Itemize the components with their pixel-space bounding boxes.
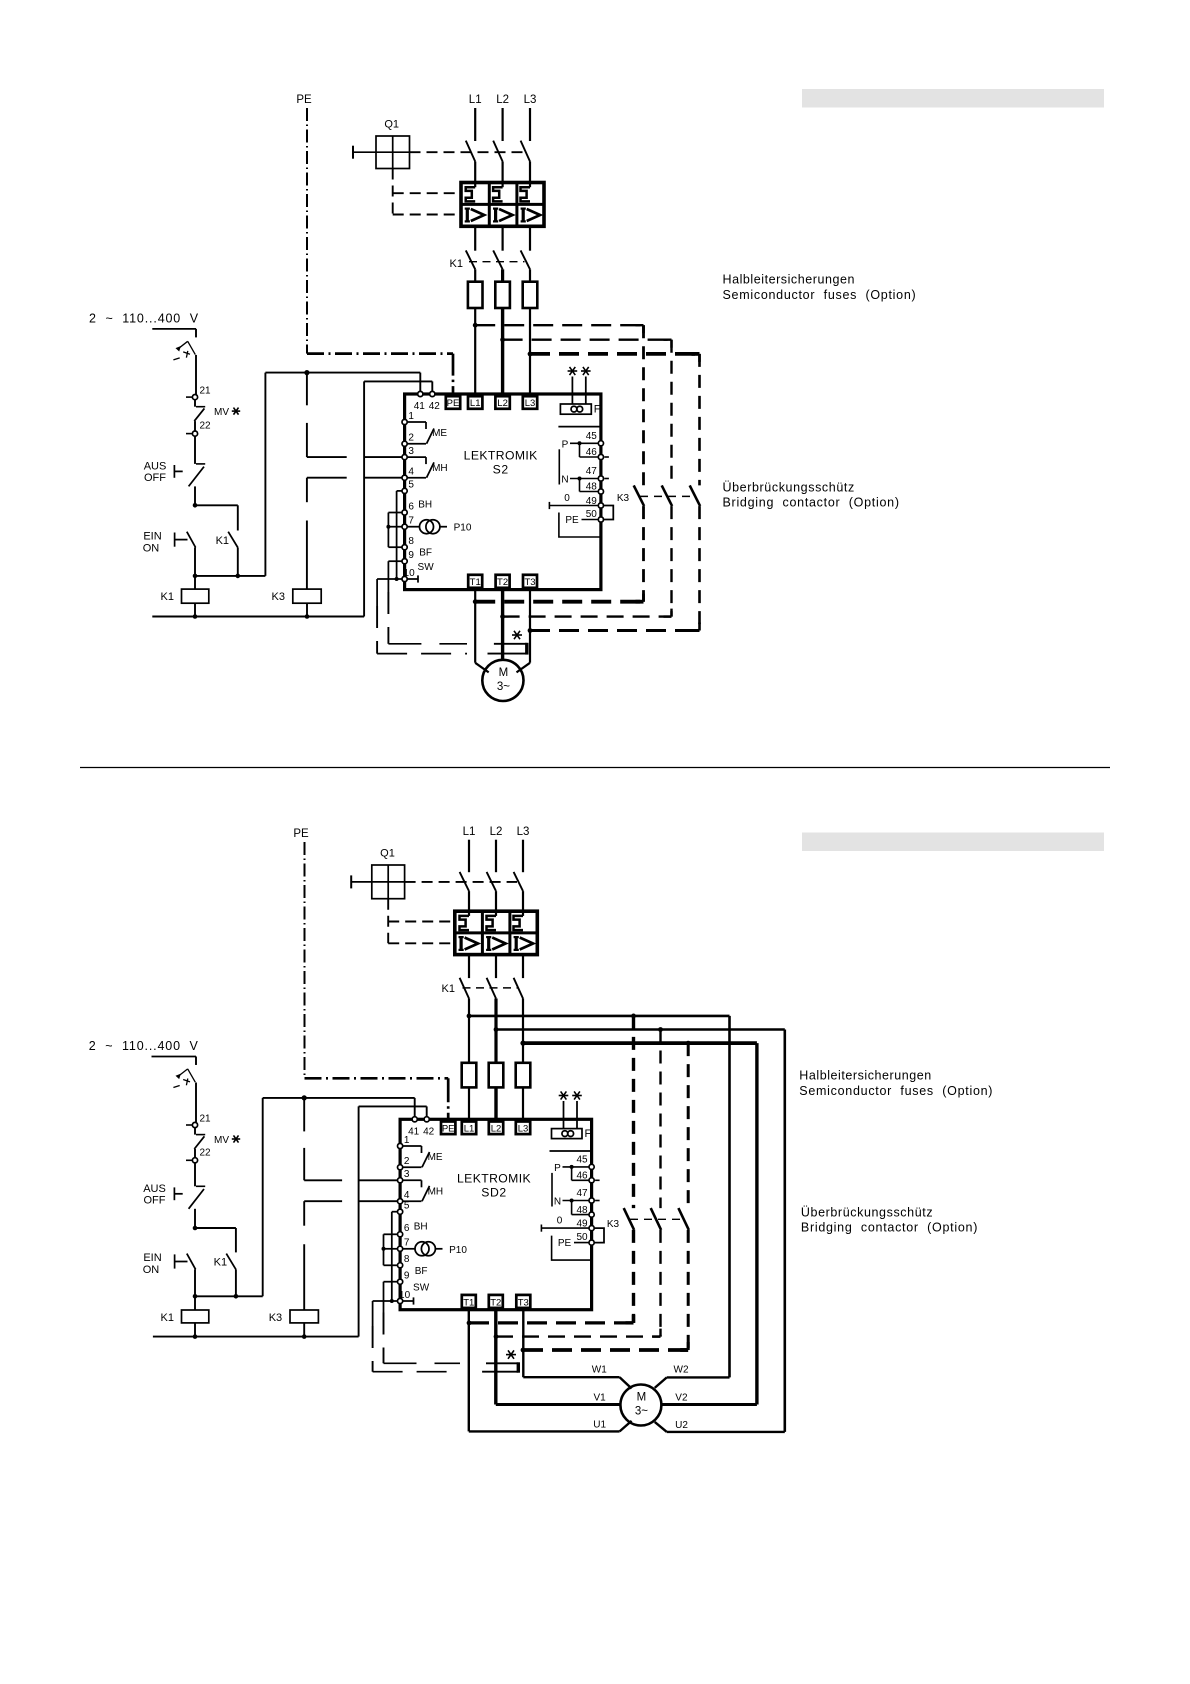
bypass riser W2 (SD2) [728,1016,731,1378]
pin 49 terminal (SD2) [589,1226,594,1231]
K3 blade L1 (SD2) [624,1208,634,1230]
overcurrent trip I> L1 (S2) [466,209,469,222]
terminal box L3 (S2) [523,396,537,409]
svg-text:MV: MV [214,407,229,418]
wire EIN to join (S2) [194,548,196,576]
wire L3 fuse to terminal (S2) [529,308,531,398]
terminal box L1 (SD2) [462,1122,476,1135]
connector * link upper (SD2) [486,1362,518,1364]
K1 mechanical link dashed (S2) [469,261,525,263]
svg-text:EIN: EIN [143,530,161,542]
thermal element L1 (S2) [474,183,476,188]
NC contact MV (S2) [196,406,205,408]
wire pin5 to tie (SD2) [392,1211,398,1213]
pin 3 terminal (S2) [402,455,407,460]
svg-text:F: F [585,1128,592,1140]
wire EIN to join (SD2) [194,1269,196,1296]
pin 8 terminal (S2) [402,545,407,550]
motor M 3~ (SD2) [620,1385,661,1426]
svg-text:L1: L1 [470,398,481,409]
svg-text:47: 47 [576,1188,588,1199]
svg-text:L2: L2 [497,398,508,409]
junction dots at join (SD2) [193,1294,198,1299]
svg-text:K1: K1 [216,535,229,547]
K3 dashed vertical L1 upper (S2) [642,325,645,485]
svg-text:K3: K3 [269,1312,282,1324]
wire pin3 segment to pin (S2) [364,456,402,458]
svg-text:PE: PE [442,1124,455,1135]
wire join to K1 coil (S2) [194,576,196,589]
pin 45 terminal (SD2) [589,1164,594,1169]
wire L2 incoming (SD2) [495,840,497,873]
link 47-48 box (S2) [579,479,581,492]
svg-text:L1: L1 [469,94,482,106]
wire V2 horizontal (SD2) [661,1403,757,1406]
K3 dashed vertical T1 lower (SD2) [632,1230,635,1323]
svg-text:7: 7 [408,516,414,527]
pin 8 terminal (SD2) [398,1263,403,1268]
wire pin10 drop solid (SD2) [372,1301,374,1326]
pushbutton AUS NC contact (S2) [173,465,175,478]
wire T1 output (SD2) [468,1310,470,1432]
K3 blade L2 (S2) [662,485,672,506]
svg-text:OFF: OFF [144,472,166,484]
bypass dashed return T3 (SD2) [523,1348,688,1352]
Q1 switch blade L3 (S2) [521,141,530,162]
svg-text:L3: L3 [518,1124,529,1135]
svg-text:MH: MH [432,463,448,474]
semiconductor fuse L3 (SD2) [516,1063,531,1088]
wire K3 coil feed segment b (SD2) [303,1201,305,1226]
connector * link upper (S2) [494,643,527,645]
K3 dashed vertical T3 lower (SD2) [687,1230,690,1350]
svg-text:41: 41 [414,401,426,412]
control fuse-switch F (SD2) [195,1057,197,1065]
Q1 linkage vertical dashed (SD2) [387,899,389,944]
terminal box L2 (SD2) [489,1122,503,1135]
wire L1 to overload (SD2) [468,891,470,911]
wire W2 diagonal (SD2) [655,1377,667,1388]
wire 21 to MV contact (S2) [194,400,196,407]
svg-text:46: 46 [586,447,598,458]
svg-text:Semiconductor fuses (Option): Semiconductor fuses (Option) [723,288,917,302]
wire pin9 drop dashed (SD2) [383,1313,385,1364]
svg-text:2: 2 [408,433,414,444]
relay contact ME pins 1-2 (S2) [407,421,426,423]
svg-text:45: 45 [576,1154,588,1165]
svg-text:50: 50 [586,509,598,520]
bypass return junction dot T3 (S2) [528,628,533,633]
Q1 switch blade L1 (SD2) [460,872,469,891]
svg-text:T1: T1 [470,577,481,588]
pin 2 terminal (S2) [402,441,407,446]
terminal box T2 (S2) [496,575,510,588]
wire pin6 lead (SD2) [384,1233,398,1235]
svg-text:SW: SW [418,562,435,573]
junction dots at join (S2) [193,574,198,579]
svg-text:Q1: Q1 [380,848,395,860]
wire T2 output (S2) [501,590,504,660]
bypass solid line L3 to V2 riser (SD2) [523,1041,757,1045]
svg-text:0: 0 [557,1216,563,1227]
wire rail to contact 21 (SD2) [195,1083,197,1123]
wire pin3 segment horizontal (SD2) [304,1179,342,1181]
pin 9 terminal (SD2) [398,1279,403,1284]
wire rail to contact 21 (S2) [195,355,197,395]
K3 tap junction dot L1 (SD2) [631,1014,636,1019]
contactor K1 aux contact (SD2) [226,1254,236,1270]
wire L2 K1 to tap (SD2) [494,999,497,1063]
svg-text:T2: T2 [490,1297,501,1308]
bypass tap L1 junction dot (S2) [473,323,478,328]
wire L3 incoming (S2) [529,108,531,141]
wire L2 fuse to terminal (S2) [501,308,504,398]
svg-text:10: 10 [399,1290,411,1301]
svg-text:SD2: SD2 [481,1185,507,1199]
NC contact MV (SD2) [196,1134,205,1136]
wire T1 output (S2) [474,590,476,663]
wire pin3 segment horizontal (S2) [307,456,347,458]
svg-text:L3: L3 [525,398,536,409]
wire PE drop to PE terminal (SD2) [447,1078,450,1124]
wire W2 horizontal (SD2) [667,1376,730,1378]
wire pin9 drop dashed (S2) [387,592,389,644]
wire T3 output (S2) [529,590,531,663]
K1 mechanical link dashed (SD2) [463,987,519,989]
connector * link lower (SD2) [482,1371,518,1373]
pin 46 terminal (SD2) [589,1178,594,1183]
svg-text:K1: K1 [161,591,174,603]
svg-text:10: 10 [404,568,416,579]
svg-text:Halbleitersicherungen: Halbleitersicherungen [723,273,855,287]
junction dot branch (SD2) [193,1226,198,1231]
thermistor lead upper dashed (S2) [388,643,467,645]
svg-text:1: 1 [404,1135,410,1146]
svg-text:U1: U1 [593,1420,606,1431]
wire W1 diagonal (SD2) [620,1377,632,1388]
terminal 21 (S2) [192,395,197,400]
svg-text:22: 22 [199,421,211,432]
contactor coil K1 (SD2) [182,1310,209,1323]
svg-text:3~: 3~ [497,681,510,693]
pushbutton EIN NO contact (S2) [174,533,176,547]
connector * end bar (S2) [525,643,528,655]
thermal element L2 (S2) [502,183,504,188]
jumper 49-50 box (SD2) [594,1228,604,1243]
bypass return junction dot T2 (S2) [500,614,505,619]
supply line (SD2) [152,1056,197,1058]
K3 dashed vertical L2 upper (S2) [670,340,672,486]
terminal 42 (S2) [430,391,435,396]
svg-text:1: 1 [408,411,414,422]
svg-text:V2: V2 [675,1393,688,1404]
contactor K1 blade L2 (SD2) [487,978,496,999]
junction dot branch (S2) [193,503,198,508]
bypass riser V2 (SD2) [755,1043,758,1404]
wire L1 incoming (SD2) [468,840,470,873]
terminal box PE (SD2) [441,1122,455,1135]
bypass return junction dot T1 (S2) [473,599,478,604]
terminal box L3 (SD2) [516,1122,530,1135]
svg-text:3~: 3~ [635,1406,648,1418]
label ** option marker (S2) [568,370,578,372]
wire pin3 segment vertical (S2) [306,423,308,457]
svg-text:Halbleitersicherungen: Halbleitersicherungen [799,1069,931,1083]
pin 49 terminal (S2) [598,503,603,508]
wire L1 K1 to fuse (S2) [474,269,476,281]
pin 1 terminal (SD2) [398,1143,403,1148]
K3 mechanical link dashed (S2) [640,495,694,497]
svg-text:K1: K1 [450,258,463,270]
wire pin4 segment horizontal (S2) [307,477,347,479]
bypass dashed return T1 (S2) [475,600,643,604]
Q1 linkage horizontal dashed upper (S2) [393,192,461,194]
pin 46 terminal (S2) [598,454,603,459]
semiconductor fuse L3 (S2) [523,282,538,308]
bypass dashed line L2 to K3 (S2) [503,339,672,341]
wire 21 to MV contact (SD2) [194,1128,196,1135]
svg-text:49: 49 [576,1219,588,1230]
bottom control rail (S2) [152,616,364,618]
pin 9 terminal (S2) [402,559,407,564]
pin 10 terminal (S2) [402,576,407,581]
connector * end bar (SD2) [517,1362,520,1372]
svg-text:41: 41 [408,1126,420,1137]
terminal box PE (S2) [446,396,460,409]
svg-text:2 ~ 110...400 V: 2 ~ 110...400 V [89,1039,199,1053]
svg-text:42: 42 [429,401,441,412]
svg-text:V1: V1 [593,1393,606,1404]
wire pin7 lead (SD2) [384,1248,398,1250]
svg-text:BF: BF [415,1266,428,1277]
wire K1 coil to rail (S2) [194,603,196,616]
relay contact MH pins 3-4 (SD2) [403,1179,422,1181]
svg-text:5: 5 [404,1201,410,1212]
wire riser to terminal 42 (S2) [364,380,432,382]
wire pin8 lead (SD2) [384,1264,398,1266]
K3 dashed vertical L2 upper (SD2) [659,1030,661,1209]
svg-text:47: 47 [586,466,598,477]
K3 dashed vertical L3 upper (SD2) [687,1043,690,1208]
contactor K1 blade L1 (SD2) [460,978,469,999]
riser to terminal 42 (S2) [363,381,365,616]
thermal element L2 (SD2) [495,911,497,916]
wire L3 incoming (SD2) [522,840,524,873]
wire pin8 lead (S2) [388,546,402,548]
bypass riser U2 (SD2) [783,1030,786,1432]
wire L1 overload to K1 (S2) [474,226,476,250]
wire PE vertical dash-dot (SD2) [304,842,306,1078]
wires ** to F block (S2) [571,377,573,405]
svg-text:L3: L3 [517,826,530,838]
wire K1 aux to join (S2) [237,548,239,576]
wire L2 to overload (S2) [502,162,504,183]
svg-text:T1: T1 [463,1297,474,1308]
pushbutton AUS NC contact (SD2) [173,1187,175,1200]
circuit breaker Q1 box (S2) [376,136,410,169]
wire AUS to branch dot (S2) [194,486,196,505]
svg-text:Bridging contactor (Option): Bridging contactor (Option) [723,496,900,510]
svg-text:BH: BH [414,1222,428,1233]
svg-text:K1: K1 [442,983,455,995]
terminal 41 (S2) [418,391,423,396]
terminal 22 (S2) [192,431,197,436]
K3 blade L3 (S2) [690,485,700,506]
thermal element L3 (SD2) [522,911,524,916]
wire pin9 drop solid (SD2) [383,1282,385,1313]
svg-text:PE: PE [558,1238,572,1249]
wire L2 overload to K1 (S2) [502,226,504,250]
pin 47 terminal (S2) [598,476,603,481]
wire pin3 segment to pin (SD2) [359,1179,398,1181]
junction dot at pin10 lead (SD2) [390,1299,394,1303]
terminal box T1 (SD2) [462,1295,476,1308]
semiconductor fuse L2 (SD2) [489,1063,504,1088]
wire T1 diagonal to motor (S2) [475,663,489,673]
junction dot K3 branch (SD2) [302,1095,307,1100]
pin 48 terminal (S2) [598,489,603,494]
relay contact MH pins 3-4 (S2) [407,456,426,458]
wire U1 diagonal (SD2) [620,1421,632,1432]
Q1 trip linkage dashed (S2) [410,151,524,153]
wire pin10 drop dashed (SD2) [372,1326,374,1372]
wire join to K1 coil (SD2) [194,1296,196,1310]
wire pin4 segment horizontal (SD2) [304,1200,342,1202]
wire pin7 lead (S2) [388,526,402,528]
terminal box T3 (SD2) [516,1295,530,1308]
wire pin10 drop dashed (S2) [376,606,378,654]
svg-text:SW: SW [413,1282,430,1293]
control fuse-switch F (S2) [195,329,197,337]
K3 dashed vertical T1 lower (S2) [642,506,645,602]
wire L1 fuse to terminal (S2) [474,308,476,398]
wire MV to 22 (S2) [194,421,196,431]
bottom control rail (SD2) [153,1336,359,1338]
svg-text:ON: ON [143,1264,160,1276]
overload relay outline (SD2) [455,911,538,954]
wire pin10 drop solid (S2) [376,579,378,606]
wire K3 coil feed segment a (S2) [306,373,308,406]
pin 6 terminal (SD2) [398,1232,403,1237]
label * (S2) [512,634,522,636]
svg-text:K3: K3 [272,591,285,603]
soft starter U1 LEKTROMIK SD2 outline (SD2) [400,1119,591,1309]
svg-text:2: 2 [404,1156,410,1167]
svg-text:N: N [554,1197,561,1208]
K3 blade L3 (SD2) [678,1208,688,1230]
svg-text:S2: S2 [493,462,509,476]
wire 22 to AUS (S2) [194,436,196,464]
svg-text:LEKTROMIK: LEKTROMIK [457,1172,531,1186]
pin 7 terminal (S2) [402,524,407,529]
svg-text:ME: ME [432,428,447,439]
grey header bar (SD2) [802,833,1104,852]
Q1 switch blade L3 (SD2) [514,872,523,891]
svg-text:3: 3 [408,446,414,457]
Q1 linkage horizontal dashed lower (SD2) [388,942,455,944]
svg-text:Semiconductor fuses (Option): Semiconductor fuses (Option) [799,1084,993,1098]
svg-text:L3: L3 [524,94,537,106]
wire L3 K1 to fuse (S2) [529,269,531,281]
bypass tap L1 junction dot (SD2) [467,1014,472,1019]
link 45-46 box (S2) [579,443,581,457]
pushbutton EIN NO contact (SD2) [174,1254,176,1268]
svg-text:BF: BF [419,548,432,559]
svg-text:ON: ON [143,542,160,554]
terminal 22 (SD2) [192,1158,197,1163]
svg-text:PE: PE [447,398,460,409]
wire L2 K1 to fuse (S2) [501,269,504,281]
wire U1 horizontal (SD2) [469,1430,620,1432]
bypass tap L3 junction dot (S2) [528,352,533,357]
wire U2 diagonal (SD2) [655,1422,667,1432]
Q1 left terminal tick (S2) [353,151,376,153]
terminal box T2 (SD2) [489,1295,503,1308]
wire K3 coil feed segment c (S2) [306,521,308,590]
wire tie pin5-pin10 vertical (S2) [396,491,398,579]
wire node to terminal 41 (SD2) [263,1097,415,1099]
svg-text:4: 4 [408,467,414,478]
pin 48 terminal (SD2) [589,1212,594,1217]
svg-text:6: 6 [404,1223,410,1234]
svg-text:9: 9 [404,1271,410,1282]
junction dots on rail (S2) [193,614,198,619]
bypass solid line L2 to U2 riser (SD2) [496,1028,785,1031]
svg-text:49: 49 [586,496,598,507]
wire V1 horizontal (SD2) [496,1403,621,1406]
wire K3 coil to rail (S2) [306,603,308,616]
semiconductor fuse L2 (S2) [495,282,510,308]
bypass dashed return T1 (SD2) [469,1321,634,1324]
pin 47 terminal (SD2) [589,1198,594,1203]
bypass return junction dot T1 (SD2) [467,1321,472,1326]
svg-text:M: M [499,667,509,679]
svg-text:MV: MV [214,1135,229,1146]
pin 10 internal stub (S2) [407,578,418,580]
terminal 41 (SD2) [412,1117,417,1122]
wire K1 coil to rail (SD2) [194,1323,196,1337]
internal line under F block (S2) [558,426,601,428]
thermistor lead lower dashed (SD2) [373,1371,458,1373]
junction dot pin7 tie (SD2) [382,1247,386,1251]
Q1 trip linkage dashed (SD2) [405,881,517,883]
svg-text:T2: T2 [497,577,508,588]
wire 22 to AUS (SD2) [194,1163,196,1186]
transformer P10 pin 7 (S2) [407,526,419,528]
svg-text:P10: P10 [454,523,472,534]
svg-text:K3: K3 [607,1219,620,1230]
pin 6 terminal (S2) [402,510,407,515]
svg-text:OFF: OFF [144,1194,166,1206]
link 47-48 box (SD2) [571,1201,573,1215]
pin 10 terminal (SD2) [398,1298,403,1303]
bypass tap L2 junction dot (S2) [500,337,505,342]
svg-text:22: 22 [199,1147,211,1158]
svg-text:L2: L2 [490,826,503,838]
semiconductor fuse L1 (S2) [468,282,483,308]
overcurrent trip I> L2 (S2) [494,209,497,222]
wire L3 K1 to tap (SD2) [522,999,524,1063]
svg-text:M: M [637,1392,647,1404]
svg-text:Bridging contactor (Option): Bridging contactor (Option) [801,1221,978,1235]
terminal box T1 (S2) [468,575,482,588]
wire riser to terminal 42 (SD2) [359,1105,427,1107]
wire pin9 drop solid (S2) [387,561,389,592]
pin 1 terminal (S2) [402,419,407,424]
terminal box L2 (S2) [495,396,509,409]
svg-text:PE: PE [293,828,309,840]
wire pin4 segment to pin (SD2) [359,1200,398,1202]
